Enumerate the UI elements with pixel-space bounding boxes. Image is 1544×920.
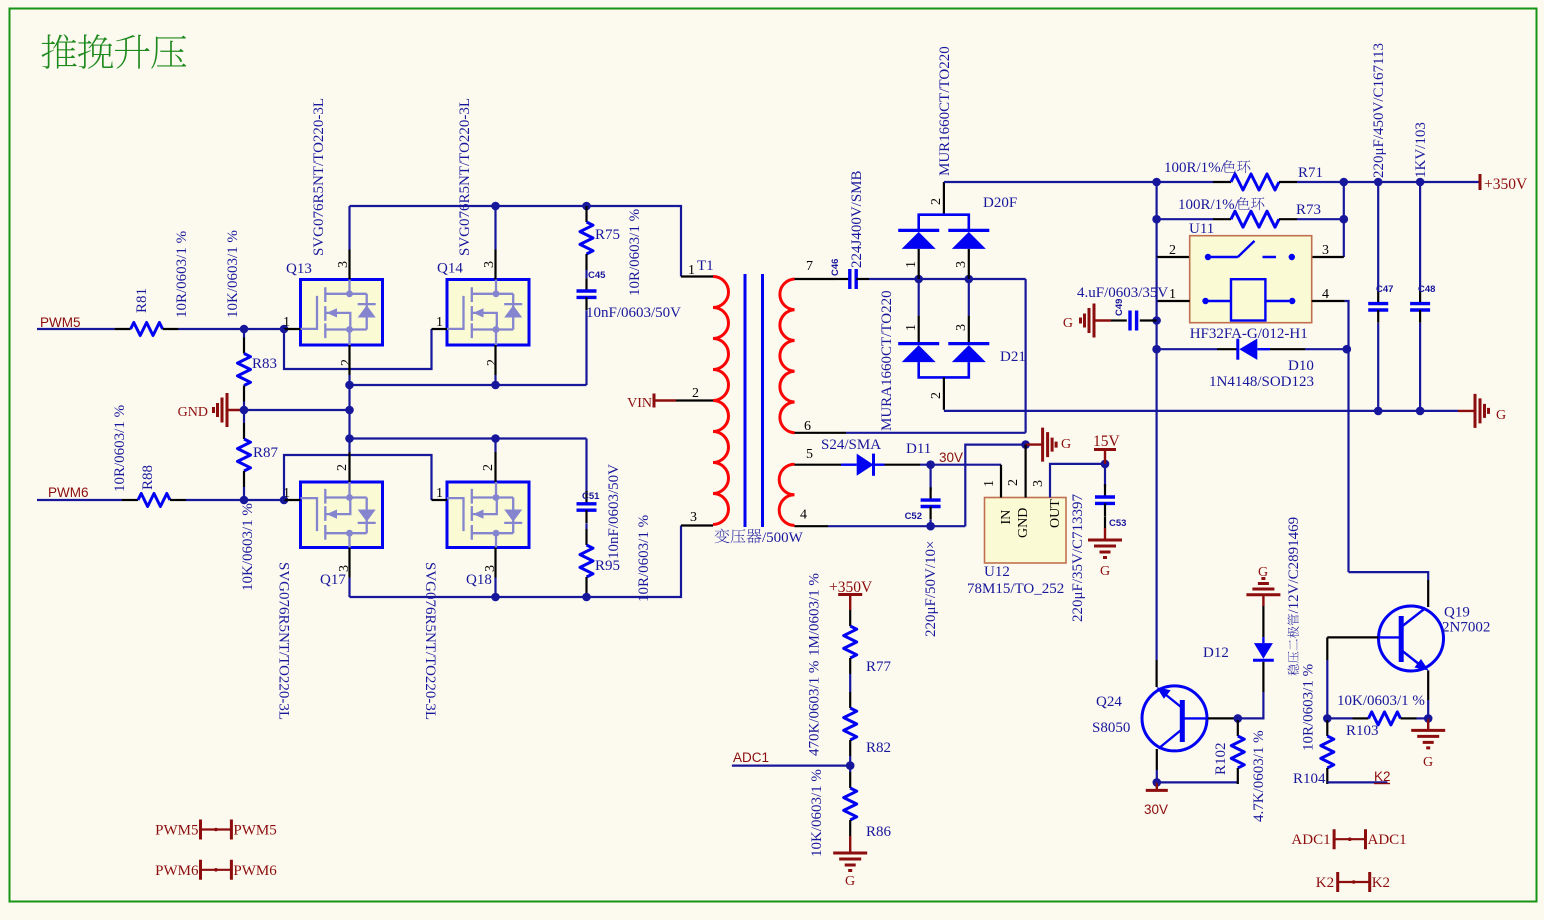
svg-text:C46: C46 xyxy=(830,259,841,276)
svg-text:2: 2 xyxy=(929,392,944,399)
svg-text:OUT: OUT xyxy=(1048,499,1063,528)
svg-text:G: G xyxy=(1258,565,1268,580)
svg-text:10K/0603/1 %: 10K/0603/1 % xyxy=(809,769,825,857)
svg-text:R102: R102 xyxy=(1213,742,1229,775)
svg-text:15V: 15V xyxy=(1093,433,1121,450)
svg-text:3: 3 xyxy=(1322,243,1329,258)
svg-text:4.7K/0603/1 %: 4.7K/0603/1 % xyxy=(1251,730,1267,822)
svg-text:10K/0603/1 %: 10K/0603/1 % xyxy=(240,503,256,591)
svg-text:D11: D11 xyxy=(906,441,931,457)
svg-text:3: 3 xyxy=(336,261,351,268)
svg-text:D12: D12 xyxy=(1203,645,1229,661)
svg-text:S24/SMA: S24/SMA xyxy=(821,437,881,453)
svg-text:Q19: Q19 xyxy=(1444,605,1470,621)
svg-text:1: 1 xyxy=(1169,287,1176,302)
svg-text:224J400V/SMB: 224J400V/SMB xyxy=(849,170,865,268)
svg-text:3: 3 xyxy=(954,261,969,268)
svg-text:R86: R86 xyxy=(866,824,892,840)
svg-text:78M15/TO_252: 78M15/TO_252 xyxy=(967,581,1064,597)
svg-text:3: 3 xyxy=(1031,480,1046,487)
svg-text:D10: D10 xyxy=(1288,358,1314,374)
svg-text:R71: R71 xyxy=(1298,165,1323,181)
svg-text:G: G xyxy=(1063,316,1073,331)
svg-text:3: 3 xyxy=(482,261,497,268)
svg-text:ADC1: ADC1 xyxy=(1368,832,1407,848)
svg-text:HF32FA-G/012-H1: HF32FA-G/012-H1 xyxy=(1190,326,1308,342)
svg-text:10R/0603/1 %: 10R/0603/1 % xyxy=(627,209,643,296)
svg-text:2: 2 xyxy=(1006,479,1021,486)
svg-text:3: 3 xyxy=(690,510,697,525)
svg-text:R103: R103 xyxy=(1346,723,1379,739)
svg-text:ADC1: ADC1 xyxy=(1291,832,1330,848)
svg-text:3: 3 xyxy=(954,324,969,331)
svg-text:MUR1660CT/TO220: MUR1660CT/TO220 xyxy=(937,46,953,176)
svg-text:PWM6: PWM6 xyxy=(155,863,199,879)
svg-text:30V: 30V xyxy=(939,450,963,465)
svg-text:2: 2 xyxy=(339,359,354,366)
svg-text:PWM5: PWM5 xyxy=(155,823,198,839)
svg-text:10R/0603/1 %: 10R/0603/1 % xyxy=(174,231,190,318)
svg-text:10R/0603/1 %: 10R/0603/1 % xyxy=(1300,664,1316,751)
svg-text:K2: K2 xyxy=(1372,875,1390,891)
svg-text:PWM5: PWM5 xyxy=(40,315,81,330)
svg-text:4: 4 xyxy=(1322,287,1329,302)
svg-text:2: 2 xyxy=(692,386,699,401)
svg-text:Q14: Q14 xyxy=(437,261,463,277)
svg-text:C49: C49 xyxy=(1114,299,1125,316)
svg-text:1N4148/SOD123: 1N4148/SOD123 xyxy=(1209,374,1314,390)
svg-text:T1: T1 xyxy=(697,258,714,274)
svg-text:K2: K2 xyxy=(1316,875,1334,891)
svg-text:C53: C53 xyxy=(1109,518,1126,529)
svg-text:C52: C52 xyxy=(905,511,922,522)
svg-text:MURA1660CT/TO220: MURA1660CT/TO220 xyxy=(879,290,895,431)
svg-text:ADC1: ADC1 xyxy=(733,750,769,765)
svg-text:+350V: +350V xyxy=(1484,176,1528,193)
svg-text:2: 2 xyxy=(485,359,500,366)
svg-text:G: G xyxy=(1423,755,1433,770)
svg-text:1: 1 xyxy=(436,315,443,330)
svg-text:10R/0603/1 %: 10R/0603/1 % xyxy=(112,405,128,492)
svg-text:1: 1 xyxy=(688,263,695,278)
svg-text:1: 1 xyxy=(436,486,443,501)
svg-text:/500W: /500W xyxy=(762,530,804,546)
svg-text:100R/1%/: 100R/1%/ xyxy=(1178,197,1240,213)
svg-text:C47: C47 xyxy=(1376,284,1393,295)
svg-text:220μF/50V/10×: 220μF/50V/10× xyxy=(923,540,939,637)
svg-text:R104: R104 xyxy=(1293,771,1326,787)
svg-text:1: 1 xyxy=(904,261,919,268)
svg-text:1: 1 xyxy=(982,480,997,487)
svg-text:SVG076R5NT/TO220-3L: SVG076R5NT/TO220-3L xyxy=(422,562,438,720)
svg-text:1: 1 xyxy=(283,486,290,501)
svg-text:G: G xyxy=(1100,564,1110,579)
svg-text:U11: U11 xyxy=(1189,221,1214,237)
svg-text:GND: GND xyxy=(1016,508,1031,538)
svg-text:1M/0603/1 %: 1M/0603/1 % xyxy=(806,573,822,656)
svg-text:R73: R73 xyxy=(1296,202,1321,218)
svg-text:Q18: Q18 xyxy=(466,572,492,588)
svg-text:/12V/C2891469: /12V/C2891469 xyxy=(1286,517,1302,614)
svg-text:Q17: Q17 xyxy=(320,572,346,588)
svg-text:2N7002: 2N7002 xyxy=(1442,620,1490,636)
svg-text:5: 5 xyxy=(806,447,813,462)
svg-text:R83: R83 xyxy=(252,356,277,372)
svg-text:SVG076R5NT/TO220-3L: SVG076R5NT/TO220-3L xyxy=(311,98,327,256)
svg-text:10R/0603/1 %: 10R/0603/1 % xyxy=(636,515,652,602)
svg-text:SVG076R5NT/TO220-3L: SVG076R5NT/TO220-3L xyxy=(276,562,292,720)
svg-text:220μF/35V/C713397: 220μF/35V/C713397 xyxy=(1070,493,1086,622)
svg-text:2: 2 xyxy=(929,198,944,205)
svg-text:3: 3 xyxy=(337,565,352,572)
svg-text:1: 1 xyxy=(904,324,919,331)
svg-text:R88: R88 xyxy=(140,465,156,490)
svg-text:VIN: VIN xyxy=(627,396,652,411)
svg-text:2: 2 xyxy=(1169,243,1176,258)
svg-text:3: 3 xyxy=(483,565,498,572)
svg-text:D20F: D20F xyxy=(983,195,1017,211)
svg-text:10K/0603/1 %: 10K/0603/1 % xyxy=(225,230,241,318)
svg-text:7: 7 xyxy=(806,259,813,274)
svg-text:R81: R81 xyxy=(134,288,150,313)
svg-text:10nF/0603/50V: 10nF/0603/50V xyxy=(586,305,681,321)
svg-text:30V: 30V xyxy=(1144,802,1168,817)
svg-text:GND: GND xyxy=(178,405,208,420)
svg-text:G: G xyxy=(845,874,855,889)
svg-text:220μF/450V/C167113: 220μF/450V/C167113 xyxy=(1371,43,1387,178)
svg-text:470K/0603/1 %: 470K/0603/1 % xyxy=(806,661,822,756)
svg-text:R75: R75 xyxy=(595,227,620,243)
svg-text:R82: R82 xyxy=(866,740,891,756)
svg-text:PWM6: PWM6 xyxy=(233,863,277,879)
svg-text:4.uF/0603/35V: 4.uF/0603/35V xyxy=(1077,285,1168,301)
svg-text:100R/1%/: 100R/1%/ xyxy=(1164,160,1226,176)
svg-text:C48: C48 xyxy=(1418,284,1435,295)
svg-text:1: 1 xyxy=(283,315,290,330)
svg-text:Q24: Q24 xyxy=(1096,694,1122,710)
svg-text:G: G xyxy=(1061,437,1071,452)
svg-text:R77: R77 xyxy=(866,659,892,675)
svg-text:U12: U12 xyxy=(984,564,1010,580)
svg-text:SVG076R5NT/TO220-3L: SVG076R5NT/TO220-3L xyxy=(457,98,473,256)
svg-text:Q13: Q13 xyxy=(286,261,312,277)
svg-text:10K/0603/1 %: 10K/0603/1 % xyxy=(1337,693,1425,709)
svg-text:PWM5: PWM5 xyxy=(233,823,276,839)
svg-text:1KV/103: 1KV/103 xyxy=(1413,122,1429,178)
svg-text:S8050: S8050 xyxy=(1092,720,1130,736)
svg-text:PWM6: PWM6 xyxy=(48,485,89,500)
svg-text:R95: R95 xyxy=(595,558,620,574)
svg-text:C45: C45 xyxy=(588,270,606,281)
svg-text:4: 4 xyxy=(800,508,807,523)
svg-text:2: 2 xyxy=(335,464,350,471)
svg-text:2: 2 xyxy=(481,464,496,471)
svg-text:G: G xyxy=(1496,408,1506,423)
svg-text:D21: D21 xyxy=(1000,349,1026,365)
svg-text:C51: C51 xyxy=(582,491,600,502)
svg-text:IN: IN xyxy=(999,510,1014,525)
svg-text:K2: K2 xyxy=(1374,769,1391,784)
svg-text:10nF/0603/50V: 10nF/0603/50V xyxy=(606,464,622,559)
svg-text:R87: R87 xyxy=(253,445,279,461)
